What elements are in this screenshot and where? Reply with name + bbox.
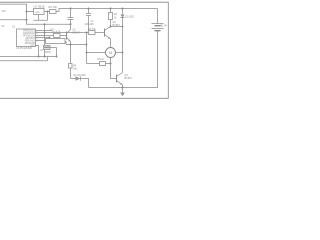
svg-text:100n16V: 100n16V	[85, 24, 95, 26]
svg-text:R3 10k: R3 10k	[88, 28, 96, 31]
vertical mid link	[86, 33, 88, 64]
pin wire GP1	[36, 40, 46, 42]
wire gnd A	[0, 56, 57, 58]
svg-text:D2 LED: D2 LED	[126, 16, 135, 19]
svg-text:BC547: BC547	[73, 32, 81, 35]
svg-text:BC547: BC547	[125, 77, 133, 80]
diode D1	[76, 76, 81, 80]
svg-text:U2 78L05: U2 78L05	[34, 4, 46, 8]
svg-text:B1 9V: B1 9V	[161, 24, 168, 27]
resistor R3	[89, 31, 96, 35]
pin wire GP3 to R1	[36, 35, 54, 37]
resistor R1	[54, 34, 61, 38]
regulator U2	[34, 9, 45, 15]
node left junctions	[26, 11, 28, 13]
pin VSS wire	[36, 46, 39, 57]
svg-text:R1 4.7k: R1 4.7k	[52, 31, 61, 34]
motor M1	[106, 48, 116, 58]
wire node R2/Q2 collector to LED column	[111, 26, 123, 28]
wire regulator input	[27, 11, 34, 13]
wire rail to battery	[56, 9, 158, 12]
pin wire GP4 long	[36, 32, 89, 34]
svg-text:D1 1N4148: D1 1N4148	[74, 74, 87, 77]
crystal X1	[44, 24, 46, 45]
transistor Q2	[104, 29, 106, 37]
wire top left rail	[0, 4, 71, 24]
svg-text:12V: 12V	[2, 10, 7, 13]
transistor Q3	[116, 75, 118, 83]
ground pin U2	[34, 12, 48, 21]
wire U2 to R6	[44, 11, 50, 13]
battery BT1	[157, 9, 159, 24]
svg-text:R6 100: R6 100	[49, 5, 58, 9]
pin wire GP2	[36, 37, 50, 39]
resistor R2	[110, 8, 112, 10]
wire to Q3 base	[111, 64, 117, 79]
wire signal B	[0, 60, 48, 62]
svg-text:7805: 7805	[35, 12, 41, 14]
resistor R5	[100, 62, 106, 66]
wire left y20	[0, 19, 27, 21]
ground	[122, 88, 124, 93]
resistor R4	[69, 64, 73, 69]
resistor R6	[50, 10, 57, 14]
LED D2	[122, 8, 124, 10]
sensor module box	[46, 39, 66, 44]
capacitor C1	[70, 8, 72, 10]
svg-text:BC557: BC557	[113, 24, 121, 27]
wire sensor output to node	[65, 42, 87, 45]
svg-text:R5 1k: R5 1k	[98, 58, 105, 61]
svg-text:5V: 5V	[2, 25, 5, 28]
IC U1	[17, 29, 36, 47]
svg-text:VSS: VSS	[30, 44, 35, 47]
border frame	[0, 2, 168, 98]
capacitor C2	[88, 8, 90, 10]
transistor Q1	[66, 32, 68, 40]
svg-text:M: M	[109, 51, 112, 55]
svg-text:4MHz: 4MHz	[45, 52, 52, 54]
wire LED cathode to Q3 collector	[122, 18, 124, 73]
pin wire GP5	[36, 30, 53, 32]
